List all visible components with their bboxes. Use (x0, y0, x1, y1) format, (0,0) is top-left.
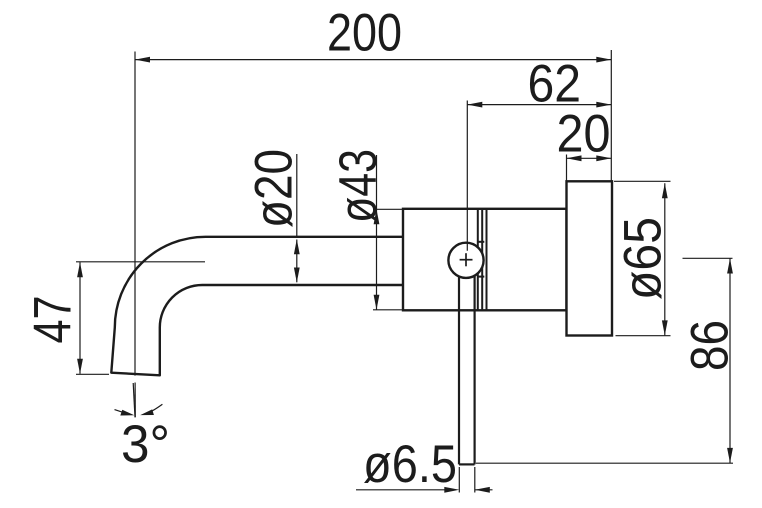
86 dimension line (729, 259, 731, 464)
wall plate (567, 181, 613, 335)
dia6.5 left extension (458, 467, 460, 493)
dia20 arrow shaft (296, 240, 298, 283)
dia6.5 leader underline (356, 489, 445, 491)
pivot cross vertical (465, 253, 467, 266)
86 bottom extension (476, 462, 733, 464)
86 top extension (683, 257, 733, 259)
dimension line 200 (135, 59, 611, 61)
62 extension to pivot centre (466, 101, 468, 251)
dia65 dimension line (664, 183, 666, 335)
faucet body (403, 209, 567, 310)
3 deg tilted axis (133, 383, 135, 417)
tube centreline horizontal (76, 261, 205, 263)
dimension line 20 (567, 157, 612, 159)
dia6.5 right extension (474, 467, 476, 493)
body joint line left (481, 209, 483, 310)
svg-text:ø43: ø43 (329, 149, 388, 223)
dia43 top extension (373, 208, 402, 210)
svg-text:ø20: ø20 (245, 149, 304, 228)
47 dimension line (79, 262, 81, 374)
dimension line 62 (467, 104, 611, 106)
dia20 leader line (296, 154, 298, 237)
body joint line right (486, 209, 488, 310)
20 extension line (566, 155, 568, 182)
handle rod right edge (474, 262, 476, 464)
svg-text:47: 47 (24, 296, 83, 344)
body joint line inner (477, 209, 479, 310)
svg-text:ø65: ø65 (614, 217, 673, 300)
pivot cross horizontal (460, 259, 473, 261)
svg-text:3°: 3° (121, 415, 170, 474)
dia65 top extension (614, 180, 671, 182)
dia65 bottom extension (616, 335, 671, 337)
centreline below tip (134, 383, 136, 418)
spout tip centreline / 200 extension (134, 52, 136, 376)
dia43 bottom extension (373, 309, 402, 311)
svg-text:86: 86 (681, 320, 740, 371)
3 degree angle arrows (115, 410, 126, 414)
svg-text:200: 200 (327, 4, 402, 63)
wall extension line (610, 50, 612, 181)
svg-text:ø6.5: ø6.5 (363, 435, 457, 494)
handle rod left edge (458, 262, 460, 464)
dia43 dimension line (376, 155, 378, 310)
lever slot bottom cap (478, 276, 485, 278)
lever slot top cap (478, 241, 485, 243)
47 bottom extension (76, 373, 109, 375)
handle rod bottom cap (459, 463, 475, 465)
pivot circle (448, 243, 483, 278)
faucet spout outline (111, 237, 403, 375)
dia6.5 right tail (475, 489, 493, 491)
svg-text:20: 20 (557, 105, 611, 164)
